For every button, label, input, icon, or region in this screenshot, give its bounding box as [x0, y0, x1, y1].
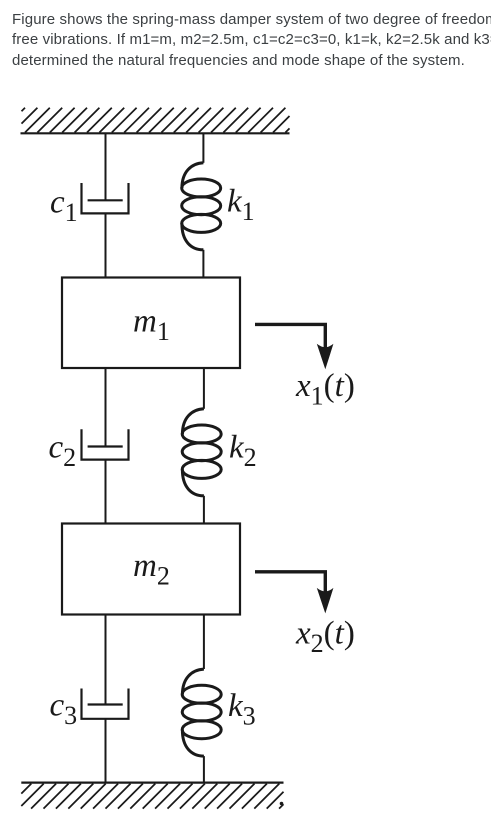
svg-text:c1: c1 — [50, 185, 78, 228]
floor hatch — [21, 784, 283, 809]
damper C2 piston — [88, 445, 123, 447]
svg-text:c3: c3 — [50, 688, 78, 731]
spring K3 coil — [182, 669, 221, 756]
spring K2 coil — [182, 409, 221, 496]
wire: mass m1 to damper c2 piston — [105, 368, 107, 447]
svg-text:k1: k1 — [227, 184, 255, 227]
period after floor — [280, 802, 284, 806]
wire: damper c2 to mass m2 — [105, 460, 107, 524]
wire: mass m2 to damper c3 piston — [105, 615, 107, 705]
wire: spring k2 to mass m2 — [203, 496, 205, 524]
svg-text:m1: m1 — [133, 304, 170, 347]
ceiling hatch — [22, 108, 290, 133]
svg-text:x1(t): x1(t) — [295, 368, 355, 411]
wire: damper c1 to mass m1 — [105, 213, 107, 277]
svg-text:k3: k3 — [228, 688, 256, 731]
svg-text:x2(t): x2(t) — [295, 616, 355, 659]
arrow x1 — [255, 324, 325, 356]
ceiling line — [21, 132, 290, 134]
mass M1 rectangle — [62, 278, 240, 369]
svg-text:c2: c2 — [49, 430, 77, 473]
spring K1 coil — [182, 163, 221, 250]
damper C1 cup — [82, 183, 129, 213]
damper C3 piston — [88, 703, 123, 705]
arrow x2 — [255, 572, 325, 600]
damper C1 piston — [88, 199, 123, 201]
wire: mass m1 to spring k2 — [203, 368, 205, 409]
caption text — [12, 10, 491, 72]
wire: spring k3 to floor — [203, 756, 205, 783]
svg-text:k2: k2 — [229, 430, 257, 473]
wire: ceiling to spring k1 — [202, 133, 204, 163]
floor line — [21, 781, 283, 783]
wire: mass m2 to spring k3 — [203, 615, 205, 670]
wire: damper c3 to floor — [105, 719, 107, 783]
damper C2 cup — [82, 429, 129, 459]
wire: ceiling to damper c1 piston — [105, 133, 107, 200]
wire: spring k1 to mass m1 — [202, 250, 204, 278]
svg-text:m2: m2 — [133, 548, 170, 591]
damper C3 cup — [82, 689, 129, 719]
mass M2 rectangle — [62, 524, 240, 615]
